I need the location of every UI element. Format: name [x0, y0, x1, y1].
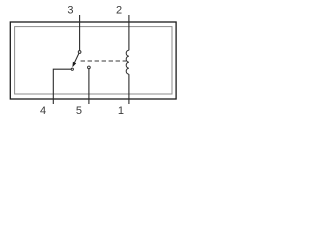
- svg-text:1: 1: [118, 105, 124, 117]
- relay coil: [126, 50, 129, 74]
- normally-closed contact circle (pin 4): [71, 68, 73, 70]
- relay body outer outline: [10, 22, 176, 99]
- svg-text:4: 4: [40, 105, 46, 117]
- common contact terminal circle (pin 3): [78, 51, 81, 54]
- wire from NC contact to pin 4: [53, 69, 71, 104]
- svg-text:3: 3: [67, 5, 73, 17]
- pin 3 lead wire: [79, 15, 81, 50]
- switch blade (movable armature): [75, 54, 79, 63]
- svg-text:2: 2: [116, 5, 122, 17]
- relay body inner outline: [15, 27, 172, 94]
- pin 5 lead wire: [88, 69, 90, 104]
- mechanical linkage dashed line: [81, 60, 127, 62]
- normally-open contact circle (pin 5): [88, 66, 91, 69]
- svg-text:5: 5: [76, 105, 82, 117]
- blade arrowhead: [72, 62, 76, 68]
- pin 1 lead wire: [128, 74, 130, 104]
- pin 2 lead wire: [128, 15, 130, 50]
